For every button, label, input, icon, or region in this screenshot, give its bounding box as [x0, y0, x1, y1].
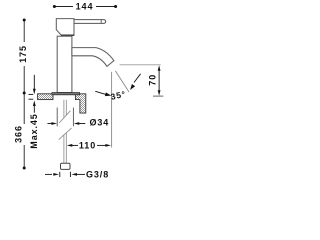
70 dim bottom extension line [153, 95, 163, 97]
dimension 366 end dot [23, 167, 26, 170]
Max.45 lower leader with up arrow [33, 101, 36, 107]
70 dim top extension line [120, 64, 161, 66]
pipe break diagonal 2 [59, 128, 72, 140]
35° angled reference line [115, 71, 129, 92]
Max.45 counter bottom tick [29, 98, 34, 100]
Max.45 counter top tick [29, 93, 34, 95]
svg-text:110: 110 [79, 140, 96, 150]
supply pipe upper segment [63, 100, 65, 118]
dimension 175 line [23, 21, 25, 92]
svg-text:70: 70 [148, 74, 158, 86]
faucet spout [72, 48, 114, 67]
Max.45 upper leader with down arrow [33, 75, 35, 90]
faucet lever [74, 20, 106, 24]
110 dimension [67, 144, 73, 147]
G3/8 connector nut [61, 163, 71, 169]
dimension 175 end dots [23, 19, 26, 22]
Ø34 dimension arrows [48, 123, 52, 125]
G3/8 right arrow [72, 173, 78, 176]
svg-text:144: 144 [76, 2, 94, 12]
faucet body [57, 36, 72, 92]
supply pipe lower segment [63, 135, 65, 163]
svg-text:Ø34: Ø34 [90, 118, 110, 128]
Ø34 left extension line [56, 108, 58, 127]
countertop right section (hatched, stepped) [75, 94, 85, 113]
handle block bottom shadow edge [61, 34, 74, 36]
lever end cap line [100, 20, 102, 23]
pipe break diagonal 1 [59, 111, 70, 123]
35° right leader arrow [134, 74, 141, 83]
35° left leader arrow [95, 91, 106, 94]
svg-text:366: 366 [14, 125, 24, 143]
Ø34 right extension line [72, 108, 74, 127]
35° vertical reference line [111, 72, 113, 148]
svg-text:G3/8: G3/8 [86, 170, 109, 180]
G3/8 left arrow [45, 173, 52, 175]
dimension 366 line [23, 94, 25, 167]
70 dimension line with arrows [158, 68, 160, 93]
dimension 144 end dots [53, 5, 56, 8]
svg-text:175: 175 [18, 45, 28, 63]
dimension 144 line [56, 6, 115, 8]
countertop left section (hatched) [38, 94, 53, 100]
base plate (escutcheon) [52, 93, 80, 95]
svg-text:Max.45: Max.45 [29, 113, 39, 148]
G3/8 dimension ticks [59, 172, 61, 177]
faucet handle block [56, 19, 74, 36]
